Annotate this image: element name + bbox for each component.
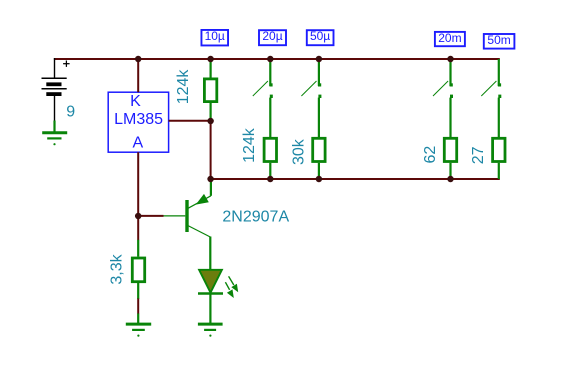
svg-text:2N2907A: 2N2907A bbox=[222, 209, 289, 226]
junction top rail at 10u branch bbox=[207, 56, 214, 63]
wire base node to Q1 bbox=[138, 215, 163, 217]
svg-text:K: K bbox=[130, 93, 141, 110]
junction node base / R6 bbox=[135, 213, 142, 220]
svg-text:124k: 124k bbox=[241, 127, 258, 163]
ground under LED bbox=[198, 324, 223, 337]
battery B1 bbox=[42, 58, 70, 121]
switch S4 (50m branch) bbox=[481, 59, 501, 137]
wire LM385 top pin bbox=[137, 59, 139, 92]
junction node LM385 output / R1 bbox=[207, 118, 214, 125]
svg-text:50µ: 50µ bbox=[310, 29, 330, 43]
wire LM385 right pin to node bbox=[169, 120, 211, 122]
svg-text:10µ: 10µ bbox=[205, 29, 225, 43]
label box 10u bbox=[201, 29, 228, 45]
junction bottom rail at 20m branch bbox=[447, 176, 454, 183]
svg-text:50m: 50m bbox=[487, 33, 510, 47]
op-amp U1 LM385 box bbox=[108, 92, 168, 152]
svg-text:3,3k: 3,3k bbox=[109, 253, 126, 284]
junction bottom rail at 20u branch bbox=[267, 176, 274, 183]
ground under battery bbox=[42, 121, 67, 146]
label box 50u bbox=[307, 29, 334, 45]
junction bottom rail at 50u branch bbox=[316, 176, 323, 183]
svg-text:124k: 124k bbox=[175, 69, 192, 105]
wire top rail bbox=[54, 58, 500, 60]
svg-text:62: 62 bbox=[422, 146, 439, 164]
ground under R6 bbox=[126, 314, 151, 337]
resistor R1 124k (10u branch) bbox=[204, 59, 216, 121]
label box 20u bbox=[259, 29, 286, 45]
LED D1 bbox=[198, 270, 223, 323]
resistor R2 124k (20u branch) bbox=[264, 138, 276, 179]
switch S1 (20u branch) bbox=[253, 59, 273, 137]
svg-text:LM385: LM385 bbox=[114, 111, 163, 128]
label box 50m bbox=[484, 33, 515, 48]
resistor R4 62 (20m branch) bbox=[444, 138, 456, 179]
junction top rail at LM385 bbox=[135, 56, 142, 63]
label box 20m bbox=[435, 31, 465, 46]
switch S2 (50u branch) bbox=[301, 59, 321, 137]
wire node R1 bottom to bottom rail bbox=[210, 121, 212, 179]
junction bottom rail at emitter bbox=[207, 176, 214, 183]
wire LM385 bottom pin bbox=[137, 152, 139, 216]
switch S3 (20m branch) bbox=[433, 59, 453, 137]
junction top rail at 20m branch bbox=[447, 56, 454, 63]
svg-text:A: A bbox=[132, 134, 143, 151]
svg-text:27: 27 bbox=[470, 146, 487, 164]
junction top rail at 50u branch bbox=[316, 56, 323, 63]
svg-text:9: 9 bbox=[66, 103, 75, 120]
resistor R5 27 (50m branch) bbox=[493, 138, 505, 179]
LED arrows bbox=[225, 276, 238, 298]
svg-text:30k: 30k bbox=[291, 138, 308, 165]
resistor R6 3,3k bbox=[132, 240, 144, 299]
resistor R3 30k (50u branch) bbox=[313, 138, 325, 179]
junction top rail at 20u branch bbox=[267, 56, 274, 63]
svg-text:20m: 20m bbox=[438, 31, 461, 45]
wire R6 to ground bbox=[137, 299, 139, 314]
transistor Q1 2N2907A bbox=[163, 179, 211, 270]
svg-text:20µ: 20µ bbox=[262, 29, 282, 43]
wire bottom rail bbox=[211, 178, 500, 180]
wire node to R6 bbox=[137, 216, 139, 240]
